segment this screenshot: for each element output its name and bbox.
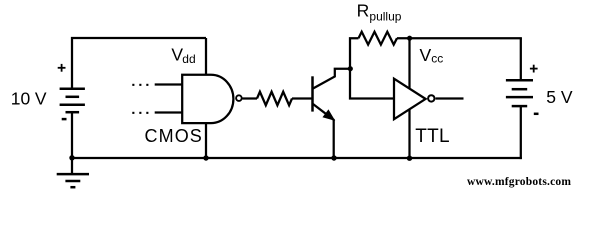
svg-text:cc: cc bbox=[431, 52, 443, 66]
svg-text:10: 10 bbox=[11, 89, 31, 109]
svg-text:dd: dd bbox=[182, 52, 195, 66]
svg-text:TTL: TTL bbox=[415, 126, 450, 147]
svg-text:www.mfgrobots.com: www.mfgrobots.com bbox=[467, 176, 571, 188]
svg-text:CMOS: CMOS bbox=[145, 126, 203, 146]
svg-text:pullup: pullup bbox=[369, 10, 401, 24]
svg-text:V: V bbox=[35, 89, 47, 109]
svg-text:5 V: 5 V bbox=[546, 87, 573, 107]
svg-text:R: R bbox=[357, 1, 370, 21]
svg-text:V: V bbox=[420, 45, 432, 65]
